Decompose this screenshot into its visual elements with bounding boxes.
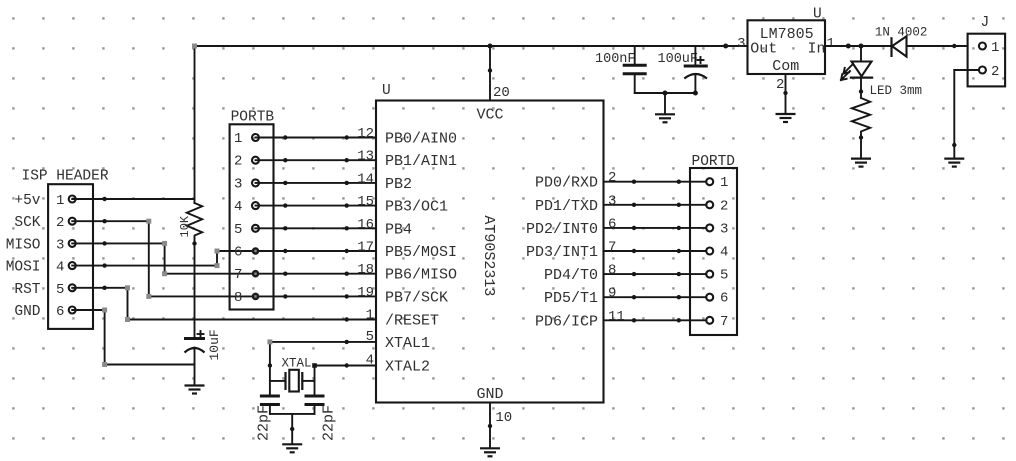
svg-text:PB2: PB2 (385, 176, 412, 193)
resistor R 10K (178, 203, 202, 339)
svg-text:3: 3 (720, 221, 728, 237)
connector PORTD (690, 154, 737, 335)
svg-text:14: 14 (357, 171, 374, 187)
svg-text:12: 12 (357, 126, 374, 142)
svg-text:19: 19 (357, 285, 374, 301)
svg-text:1: 1 (827, 36, 835, 52)
svg-text:LED 3mm: LED 3mm (870, 84, 923, 98)
svg-text:PB6/MISO: PB6/MISO (385, 267, 457, 284)
svg-text:PB3/OC1: PB3/OC1 (385, 199, 448, 216)
pin end dots IC left side (345, 135, 349, 367)
wire XTAL ground node (270, 414, 315, 444)
wire filter caps ground node (635, 91, 698, 115)
svg-text:3: 3 (56, 237, 64, 253)
svg-text:PORTB: PORTB (231, 109, 275, 125)
ground (10uF) (185, 386, 205, 394)
pin end dots IC right side (632, 180, 636, 323)
ground (filter caps) (655, 114, 675, 122)
wire MISO net ISP pin3 to PORTB pin7 row (72, 241, 376, 276)
svg-text:PD1/TXD: PD1/TXD (535, 198, 598, 215)
capacitor C 100nF (595, 46, 647, 93)
svg-text:XTAL: XTAL (281, 357, 311, 371)
svg-text:6: 6 (720, 291, 728, 307)
svg-text:U: U (382, 83, 391, 99)
svg-text:/RESET: /RESET (385, 313, 439, 330)
wire LM7805 In to J pin1 (825, 44, 968, 49)
svg-text:1: 1 (366, 308, 374, 324)
svg-text:PB7/SCK: PB7/SCK (385, 289, 448, 306)
wire XTAL2 net (312, 363, 376, 396)
svg-text:2: 2 (56, 215, 64, 231)
svg-text:4: 4 (720, 245, 728, 261)
svg-text:PB4: PB4 (385, 221, 412, 238)
ground (IC) (480, 448, 500, 456)
svg-text:15: 15 (357, 194, 374, 210)
svg-text:PD5/T1: PD5/T1 (544, 290, 598, 307)
svg-text:PB5/MOSI: PB5/MOSI (385, 244, 457, 261)
svg-text:8: 8 (608, 263, 616, 279)
svg-text:XTAL2: XTAL2 (385, 359, 430, 376)
svg-text:22pF: 22pF (255, 405, 272, 441)
svg-text:+5v: +5v (14, 193, 40, 209)
svg-text:1: 1 (720, 175, 728, 191)
capacitor C 22pF left (255, 396, 280, 441)
svg-text:In: In (808, 41, 826, 58)
svg-text:1: 1 (991, 40, 999, 56)
svg-text:4: 4 (56, 260, 64, 276)
capacitor C 10uF (184, 329, 222, 385)
svg-text:10: 10 (495, 410, 512, 426)
svg-text:2: 2 (991, 64, 999, 80)
svg-text:PD6/ICP: PD6/ICP (535, 313, 598, 330)
wire MOSI net ISP pin4 to PORTB pin6 row (72, 249, 376, 269)
svg-text:7: 7 (234, 267, 242, 283)
svg-text:1: 1 (234, 131, 242, 147)
connector J (968, 15, 1006, 86)
ground (LED) (851, 159, 871, 167)
svg-text:16: 16 (357, 217, 374, 233)
svg-text:GND: GND (14, 304, 40, 320)
svg-text:22pF: 22pF (321, 405, 338, 441)
crystal XTAL (270, 357, 315, 392)
svg-text:6: 6 (608, 216, 616, 232)
svg-text:6: 6 (234, 245, 242, 261)
svg-text:PD0/RXD: PD0/RXD (535, 175, 598, 192)
svg-text:Com: Com (772, 58, 799, 75)
svg-text:AT90S2313: AT90S2313 (480, 215, 497, 296)
wire XTAL1 net (267, 339, 376, 396)
wire GND pin 10 (488, 403, 512, 449)
ground (XTAL) (282, 444, 302, 452)
svg-text:Out: Out (750, 41, 777, 58)
svg-text:RST: RST (14, 282, 40, 298)
svg-text:18: 18 (357, 262, 374, 278)
op IC U AT90S2313 (376, 83, 604, 403)
wires PORTB pins 1-5 to IC (256, 138, 377, 229)
svg-text:PB0/AIN0: PB0/AIN0 (385, 131, 457, 148)
capacitor C 22pF right (305, 396, 338, 441)
svg-text:3: 3 (737, 36, 745, 52)
svg-text:2: 2 (234, 154, 242, 170)
PORTB pin circles (252, 134, 260, 300)
svg-text:VCC: VCC (476, 107, 503, 124)
svg-text:17: 17 (357, 240, 374, 256)
svg-text:MISO: MISO (6, 237, 41, 253)
svg-text:MOSI: MOSI (6, 260, 41, 276)
ground (LM7805) (776, 114, 796, 122)
wire VCC pin 20 (488, 44, 510, 102)
diode D 1N 4002 (875, 26, 928, 58)
wire RST net ISP pin5 to /RESET row (72, 285, 376, 322)
wire +5v net ISP pin1 to resistor top (72, 197, 194, 201)
svg-text:4: 4 (234, 199, 242, 215)
wire GND net ISP pin6 to C 10uF ground (72, 308, 194, 368)
wires IC right to PORTD (604, 182, 707, 321)
svg-text:11: 11 (608, 309, 625, 325)
resistor R (LED) (852, 98, 870, 158)
ISP pin circles (69, 196, 76, 314)
svg-text:13: 13 (357, 149, 374, 165)
wire LM7805 pin2 to ground (783, 74, 787, 114)
connector ISP HEADER (6, 169, 109, 329)
capacitor C 100uF (658, 46, 708, 93)
pin numbers IC left (357, 126, 374, 369)
svg-text:10K: 10K (178, 215, 192, 237)
ground (J) (944, 159, 964, 167)
svg-text:5: 5 (56, 282, 64, 298)
svg-text:ISP HEADER: ISP HEADER (22, 169, 109, 185)
wire VCC rail top (192, 44, 748, 204)
svg-text:3: 3 (234, 176, 242, 192)
svg-text:J: J (981, 15, 990, 31)
wire SCK net ISP pin2 to PORTB pin8 row (72, 219, 376, 299)
svg-text:7: 7 (720, 314, 728, 330)
svg-text:2: 2 (720, 198, 728, 214)
svg-text:20: 20 (493, 85, 510, 101)
svg-text:10uF: 10uF (207, 329, 222, 360)
svg-text:2: 2 (608, 170, 616, 186)
svg-text:8: 8 (234, 290, 242, 306)
LED D LED 3mm (841, 46, 922, 98)
svg-text:5: 5 (720, 268, 728, 284)
svg-text:PD3/INT1: PD3/INT1 (526, 244, 598, 261)
pin end dots PORTB side (283, 135, 287, 298)
svg-text:2: 2 (776, 77, 784, 93)
svg-text:5: 5 (234, 222, 242, 238)
svg-text:3: 3 (608, 193, 616, 209)
svg-text:SCK: SCK (14, 215, 40, 231)
svg-text:XTAL1: XTAL1 (385, 335, 430, 352)
svg-text:9: 9 (608, 286, 616, 302)
svg-text:7: 7 (608, 240, 616, 256)
pin numbers IC right (608, 170, 625, 325)
regulator U LM7805 (723, 7, 835, 94)
svg-text:PD2/INT0: PD2/INT0 (526, 221, 598, 238)
svg-text:GND: GND (476, 386, 503, 403)
svg-text:6: 6 (56, 304, 64, 320)
connector PORTB (230, 109, 275, 309)
svg-text:PB1/AIN1: PB1/AIN1 (385, 153, 457, 170)
svg-text:1N 4002: 1N 4002 (875, 26, 928, 40)
svg-text:PD4/T0: PD4/T0 (544, 267, 598, 284)
pin end dots PORTD side (677, 180, 681, 323)
svg-text:1: 1 (56, 193, 64, 209)
wire J pin2 to ground (952, 70, 979, 158)
